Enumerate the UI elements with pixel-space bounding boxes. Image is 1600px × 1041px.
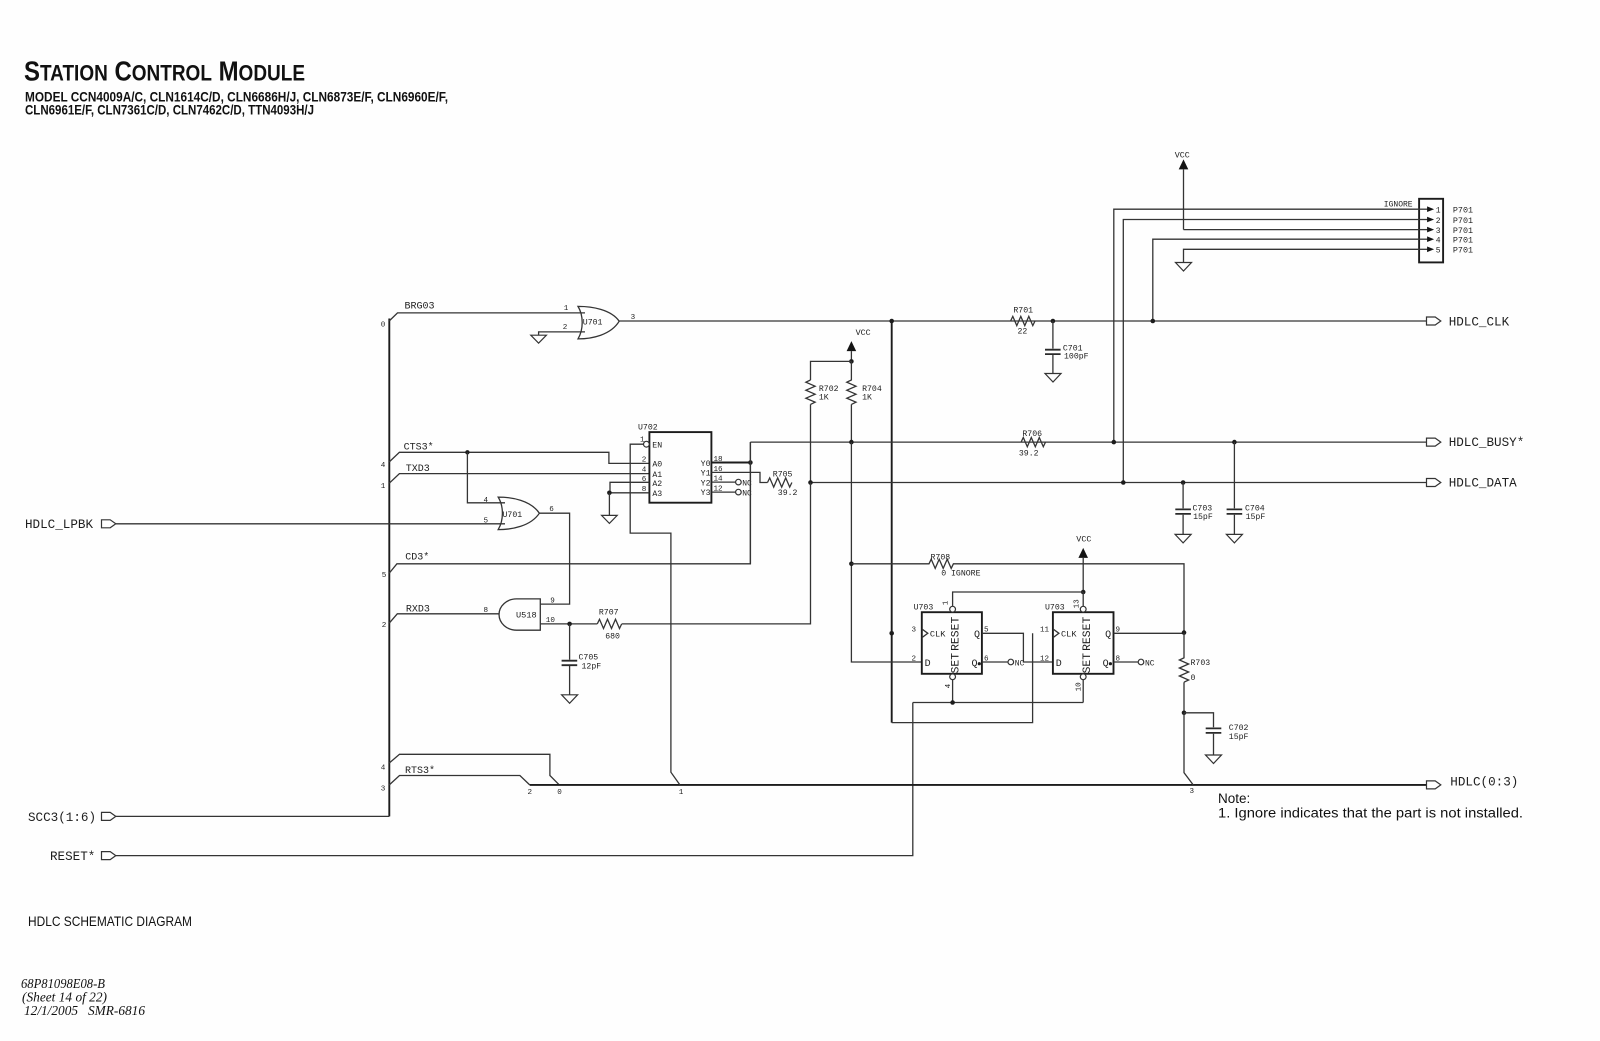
wire SET pins to RESET* line	[913, 680, 1083, 703]
wire A2 jog	[610, 482, 649, 493]
wire to ground	[608, 493, 610, 515]
pin 1 EN bubble	[640, 437, 649, 448]
svg-text:CLN6961E/F, CLN7361C/D, CLN746: CLN6961E/F, CLN7361C/D, CLN7462C/D, TTN4…	[25, 103, 314, 118]
junction R703 / C702	[1182, 711, 1187, 716]
no-connect U703a pin6	[1008, 659, 1025, 668]
port HDLC_CLK	[1427, 315, 1510, 329]
wire Y0	[711, 462, 750, 464]
svg-text:R701: R701	[1013, 306, 1033, 315]
svg-text:4: 4	[484, 497, 489, 505]
svg-text:RESET*: RESET*	[50, 850, 95, 864]
net BRG03 entry	[381, 302, 585, 330]
svg-text:2: 2	[1436, 217, 1441, 226]
svg-text:C705: C705	[579, 654, 599, 663]
net RTS3 upper entry (bit 0)	[381, 754, 562, 797]
svg-text:VCC: VCC	[1175, 151, 1190, 161]
svg-text:D: D	[925, 659, 931, 670]
capacitor C705	[562, 624, 602, 695]
junction R704 bottom	[849, 440, 854, 445]
power VCC above R702 R704	[847, 328, 871, 362]
svg-text:0: 0	[381, 321, 386, 329]
svg-text:1. Ignore indicates that the p: 1. Ignore indicates that the part is not…	[1218, 806, 1523, 821]
junction R705/R702/R707 node	[808, 480, 813, 485]
junction VCC split	[849, 359, 854, 364]
footer sheet info	[21, 977, 145, 1019]
wire Q9 to R703 node	[1114, 632, 1185, 634]
svg-text:Y1: Y1	[701, 470, 711, 479]
svg-text:HDLC_LPBK: HDLC_LPBK	[25, 518, 93, 532]
svg-text:R707: R707	[599, 608, 619, 617]
resistor R704	[847, 361, 882, 442]
junction pin10 / C705	[567, 622, 572, 627]
resistor R701	[1011, 306, 1035, 336]
svg-text:12pF: 12pF	[582, 662, 602, 671]
svg-text:U702: U702	[638, 423, 658, 432]
svg-text:10: 10	[1076, 682, 1084, 692]
labels P701	[1453, 206, 1473, 256]
svg-text:Q: Q	[971, 659, 977, 670]
ground at C702	[1206, 755, 1222, 764]
svg-text:SCC3(1:6): SCC3(1:6)	[28, 811, 96, 825]
resistor R708	[851, 553, 1184, 632]
svg-text:2: 2	[563, 324, 568, 332]
wire P701 pin3 from VCC	[1184, 229, 1420, 231]
svg-text:D: D	[1056, 659, 1062, 670]
svg-text:STATION CONTROL MODULE: STATION CONTROL MODULE	[24, 56, 305, 87]
capacitor C703	[1175, 483, 1213, 535]
svg-text:39.2: 39.2	[778, 489, 798, 498]
or-gate U701a (pins 1,2,3)	[563, 305, 636, 339]
svg-text:0: 0	[557, 789, 562, 797]
svg-text:Q: Q	[974, 630, 980, 641]
no-connect U703b pin8	[1138, 659, 1155, 668]
wire A3	[609, 492, 649, 494]
reset bubble U703b	[1080, 606, 1086, 612]
svg-text:3: 3	[381, 786, 386, 794]
ground at C701	[1045, 374, 1061, 383]
set bubble U703a	[950, 674, 956, 680]
svg-text:12/1/2005 SMR-6816: 12/1/2005 SMR-6816	[24, 1004, 145, 1019]
wire U518 pin8 output to RXD3	[498, 613, 500, 615]
svg-text:39.2: 39.2	[1019, 450, 1039, 459]
svg-text:A1: A1	[652, 471, 662, 480]
wire Q5 to D12	[982, 633, 1053, 662]
svg-text:11: 11	[1040, 627, 1050, 635]
junction CLK at U703a pin3	[889, 631, 894, 636]
port HDLC_BUSY*	[1427, 436, 1525, 450]
wire Y2 to NC	[711, 481, 735, 483]
svg-text:5: 5	[1436, 247, 1441, 256]
junction C704 tap	[1232, 440, 1237, 445]
wire HDLC_LPBK to U701 pin5	[116, 523, 505, 525]
ground at C704	[1226, 534, 1242, 543]
svg-text:HDLC SCHEMATIC DIAGRAM: HDLC SCHEMATIC DIAGRAM	[28, 913, 192, 929]
svg-text:HDLC_DATA: HDLC_DATA	[1449, 477, 1517, 491]
junction pin1 busy	[1112, 440, 1117, 445]
wire busy net vertical to R708/D2	[851, 442, 921, 662]
wire Y3 to NC	[711, 491, 735, 493]
bus HDLC(0:3) horizontal	[530, 784, 1427, 786]
svg-text:1: 1	[381, 483, 386, 491]
capacitor C704	[1227, 442, 1266, 534]
flipflop U703a box	[914, 604, 982, 674]
junction HDLC_CLK / CLK vertical	[889, 319, 894, 324]
junction R701 / C701	[1051, 319, 1056, 324]
junction CTS3/U701 pin4	[465, 450, 469, 454]
wire busy corner to R708 line	[749, 442, 751, 564]
svg-text:1: 1	[640, 437, 645, 445]
ground at U702 A-inputs	[602, 515, 618, 523]
svg-text:0: 0	[1191, 674, 1196, 683]
power VCC at P701	[1175, 151, 1190, 230]
wire CTS3 to U701 pin4	[467, 452, 505, 503]
svg-text:NC: NC	[1015, 659, 1025, 668]
port HDLC_DATA	[1427, 477, 1518, 491]
resistor R707	[597, 608, 621, 641]
svg-text:U701: U701	[583, 319, 603, 328]
svg-text:2: 2	[642, 456, 647, 464]
svg-text:VCC: VCC	[1076, 535, 1091, 545]
or-gate U701b (pins 4,5,6)	[484, 497, 555, 530]
svg-text:HDLC_BUSY*: HDLC_BUSY*	[1449, 436, 1525, 450]
svg-text:P701: P701	[1453, 246, 1473, 256]
wire VCC to RESET pins	[953, 592, 1084, 606]
node SCC3 bus vertical	[388, 319, 390, 817]
wire U518 pin10	[540, 623, 597, 625]
resistor R702	[806, 380, 839, 483]
wire HDLC_BUSY line	[750, 441, 1426, 443]
svg-text:P701: P701	[1453, 216, 1473, 226]
svg-text:680: 680	[605, 633, 620, 642]
P701 pin arrows and numbers	[1419, 206, 1441, 255]
svg-text:2: 2	[382, 622, 387, 630]
wire Qbar8 to NC	[1114, 661, 1139, 663]
svg-text:SET: SET	[1082, 653, 1094, 674]
wire HDLC_CLK line	[619, 320, 1426, 322]
svg-text:HDLC(0:3): HDLC(0:3)	[1450, 775, 1518, 789]
port SCC3(1:6)	[28, 811, 116, 825]
wire EN net to bus tap 1	[630, 444, 680, 785]
ground at C703	[1175, 534, 1191, 543]
svg-text:CLK: CLK	[1061, 630, 1077, 640]
junction A2/A3 ground	[607, 491, 612, 496]
svg-text:BRG03: BRG03	[405, 302, 435, 313]
resistor R706	[1019, 430, 1046, 459]
svg-text:2: 2	[528, 789, 533, 797]
net CTS3* entry	[381, 442, 650, 470]
net RTS3* entry (bit 2)	[381, 765, 533, 797]
svg-text:Q: Q	[1103, 659, 1109, 670]
net TXD3 entry	[381, 464, 650, 491]
svg-text:P701: P701	[1453, 206, 1473, 216]
svg-text:RESET: RESET	[951, 617, 963, 651]
svg-text:Y3: Y3	[701, 489, 711, 498]
wire P701 pin5 to ground	[1184, 249, 1420, 262]
svg-text:1: 1	[679, 789, 684, 797]
svg-text:CLK: CLK	[930, 630, 946, 640]
resistor R705	[768, 471, 798, 498]
chip U702	[638, 423, 711, 502]
ground at C705	[562, 695, 578, 704]
svg-text:Y2: Y2	[701, 479, 711, 488]
svg-text:15pF: 15pF	[1229, 733, 1249, 742]
power VCC at flipflops	[1076, 535, 1091, 592]
svg-text:R706: R706	[1022, 430, 1042, 439]
svg-text:1: 1	[943, 600, 951, 605]
svg-text:12: 12	[1040, 655, 1050, 663]
svg-text:100pF: 100pF	[1064, 353, 1089, 362]
svg-text:4: 4	[381, 765, 386, 773]
junction SET line	[950, 700, 955, 705]
svg-text:4: 4	[642, 467, 647, 475]
svg-text:5: 5	[382, 572, 387, 580]
svg-text:RESET: RESET	[1082, 617, 1094, 651]
svg-text:CD3*: CD3*	[405, 551, 429, 563]
svg-text:15pF: 15pF	[1193, 513, 1213, 522]
svg-text:EN: EN	[652, 441, 662, 450]
wire CLK vertical to flipflop clocks	[891, 321, 893, 723]
capacitor C702	[1184, 713, 1249, 755]
svg-text:C702: C702	[1229, 724, 1249, 733]
wire U701b output to U518 pin9	[539, 513, 569, 604]
svg-text:1: 1	[1436, 207, 1441, 216]
set bubble U703b	[1080, 674, 1086, 680]
junction Q9/R708/R703	[1182, 630, 1187, 635]
svg-text:0 IGNORE: 0 IGNORE	[941, 570, 980, 579]
svg-text:9: 9	[550, 598, 555, 606]
svg-text:4: 4	[945, 683, 953, 688]
svg-text:U703: U703	[1045, 604, 1065, 613]
svg-text:R703: R703	[1191, 659, 1211, 668]
ground at U701a pin2	[531, 335, 547, 343]
svg-text:22: 22	[1018, 327, 1028, 336]
svg-text:HDLC_CLK: HDLC_CLK	[1449, 315, 1510, 329]
svg-text:NC: NC	[1145, 659, 1155, 668]
svg-text:A3: A3	[652, 490, 662, 499]
capacitor C701	[1045, 321, 1089, 373]
title STATION CONTROL MODULE	[24, 56, 448, 118]
svg-text:U703: U703	[914, 604, 934, 613]
svg-text:P701: P701	[1453, 226, 1473, 236]
svg-text:Note:: Note:	[1218, 791, 1250, 806]
port HDLC(0:3)	[1427, 775, 1519, 789]
junction VCC reset line	[1081, 590, 1086, 595]
note text	[1218, 791, 1523, 821]
svg-text:Y0: Y0	[701, 460, 711, 469]
svg-text:1K: 1K	[862, 393, 872, 402]
port RESET*	[50, 850, 116, 864]
svg-text:2: 2	[912, 655, 917, 663]
svg-text:3: 3	[1190, 788, 1195, 796]
svg-text:13: 13	[1074, 599, 1082, 609]
svg-text:SET: SET	[951, 653, 963, 674]
svg-text:VCC: VCC	[856, 328, 871, 338]
junction pin4 clk	[1151, 319, 1156, 324]
ground at P701 pin5	[1176, 263, 1192, 272]
svg-text:IGNORE: IGNORE	[1384, 201, 1413, 210]
junction pin2 data	[1121, 480, 1126, 485]
svg-text:3: 3	[912, 627, 917, 635]
svg-text:U518: U518	[516, 610, 537, 620]
svg-text:A0: A0	[652, 461, 662, 470]
wire U701a pin2 stub	[539, 332, 585, 335]
port HDLC_LPBK	[25, 518, 116, 532]
svg-text:3: 3	[1436, 227, 1441, 236]
resistor R703	[1179, 633, 1210, 713]
junction C703 tap	[1181, 480, 1186, 485]
svg-text:4: 4	[381, 462, 386, 470]
svg-text:R708: R708	[931, 553, 951, 562]
net RXD3 entry	[382, 604, 499, 630]
svg-text:15pF: 15pF	[1246, 513, 1266, 522]
no-connect Y2	[736, 479, 752, 488]
junction Y0 node	[748, 460, 753, 465]
svg-text:8: 8	[484, 607, 489, 615]
svg-text:1: 1	[564, 305, 569, 313]
svg-text:P701: P701	[1453, 236, 1473, 246]
wire P701 pin1 from busy	[1114, 209, 1419, 442]
wire HDLC_DATA line	[811, 482, 1427, 484]
wire VCC to R702	[811, 361, 852, 380]
wire P701 pin4 from clk	[1153, 239, 1419, 321]
connector P701 box	[1419, 199, 1443, 263]
wire Y1 to R705	[711, 472, 767, 482]
svg-text:Q: Q	[1105, 630, 1111, 641]
wire R707 to DATA node	[622, 483, 811, 624]
no-connect Y3	[736, 489, 752, 498]
flipflop U703b box	[1045, 604, 1114, 674]
wire RESET* to flipflop SET line	[116, 703, 913, 856]
wire Qbar6 to NC	[982, 661, 1008, 663]
wire P701 pin2 from data	[1123, 220, 1419, 483]
net CD3* entry	[382, 442, 751, 580]
svg-text:5: 5	[484, 518, 489, 526]
svg-text:1K: 1K	[819, 393, 829, 402]
reset bubble U703a	[950, 606, 956, 612]
and-gate U518 (mirrored)	[499, 598, 555, 631]
wire SCC3 to bus	[116, 815, 390, 817]
svg-text:U701: U701	[503, 511, 523, 520]
junction busy vertical / R708 line	[849, 562, 854, 567]
svg-text:R705: R705	[773, 471, 793, 480]
svg-text:4: 4	[1436, 237, 1441, 246]
svg-text:A2: A2	[652, 480, 662, 489]
wire R703 node to bus tap 3	[1184, 713, 1193, 785]
